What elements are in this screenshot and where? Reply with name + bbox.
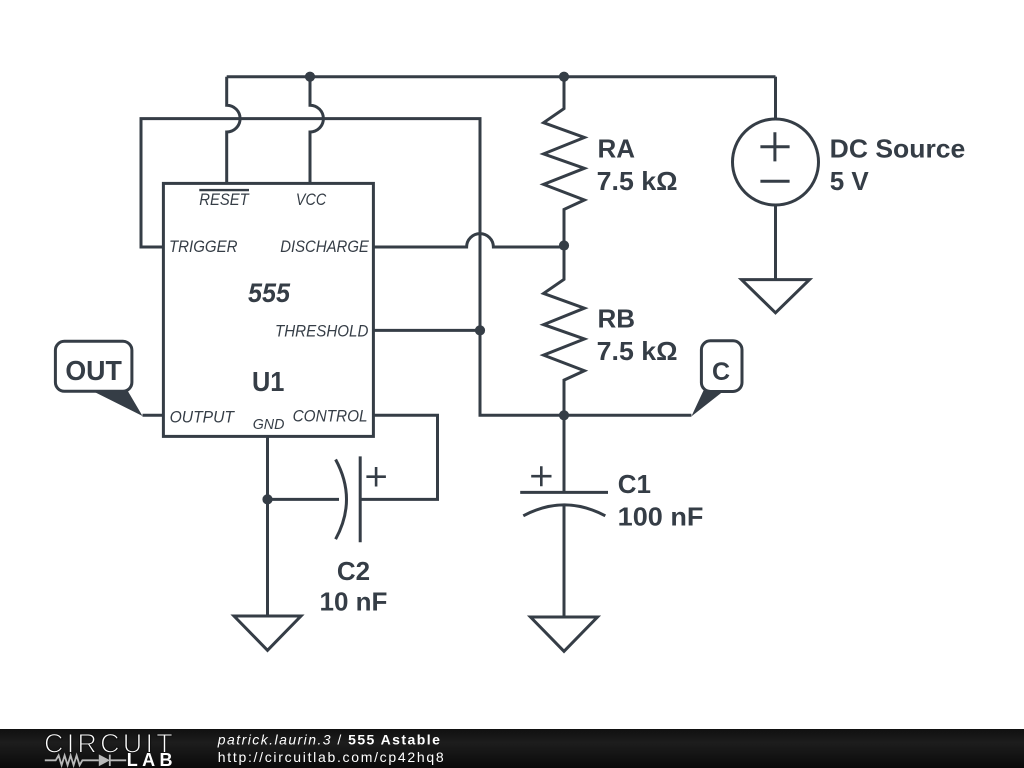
junction node top rail / VCC	[305, 72, 315, 82]
svg-text:DISCHARGE: DISCHARGE	[280, 237, 369, 256]
resistor RB with leads	[544, 246, 585, 416]
logo diode triangle	[99, 754, 110, 766]
capacitor C2 straight plate	[359, 456, 362, 542]
footer bar	[0, 729, 1024, 768]
capacitor C1 straight plate	[520, 491, 608, 494]
flag C pointer	[691, 391, 724, 417]
DC source V1 circle	[733, 119, 819, 205]
junction node THRESHOLD	[475, 325, 485, 335]
wire DISCHARGE to RA/RB junction with hop over x480	[373, 234, 564, 247]
wire C1 bottom lead	[563, 506, 566, 617]
svg-text:C2: C2	[337, 556, 370, 586]
svg-text:10 nF: 10 nF	[320, 586, 388, 616]
svg-text:U1: U1	[252, 366, 284, 397]
wire DC source bottom lead	[774, 205, 777, 280]
wire VCC pin vertical with hop	[310, 77, 323, 184]
svg-text:RESET: RESET	[199, 190, 250, 209]
svg-text:patrick.laurin.3 / 555 Astable: patrick.laurin.3 / 555 Astable	[217, 732, 442, 748]
ground under DC source	[742, 280, 810, 313]
svg-text:LAB: LAB	[127, 750, 177, 768]
wire C1 top lead	[563, 415, 566, 492]
svg-text:http://circuitlab.com/cp42hq8: http://circuitlab.com/cp42hq8	[218, 749, 446, 765]
svg-text:7.5 kΩ: 7.5 kΩ	[597, 166, 678, 196]
junction node top rail / RA	[559, 72, 569, 82]
svg-text:7.5 kΩ: 7.5 kΩ	[597, 336, 678, 366]
svg-text:100 nF: 100 nF	[618, 502, 704, 532]
svg-text:CONTROL: CONTROL	[293, 407, 368, 426]
capacitor C2 plus sign	[366, 467, 386, 487]
svg-text:VCC: VCC	[296, 190, 327, 209]
svg-text:5 V: 5 V	[830, 166, 870, 196]
svg-text:GND: GND	[253, 416, 285, 433]
svg-text:OUT: OUT	[65, 355, 122, 386]
svg-text:C: C	[712, 358, 730, 386]
RESET overline	[199, 189, 249, 191]
svg-text:C1: C1	[618, 469, 651, 499]
wire THRESHOLD pin	[373, 329, 480, 332]
flag C rounded box	[701, 341, 742, 392]
ground under C2/GND	[234, 616, 301, 650]
resistor RA with leads	[544, 77, 585, 246]
svg-text:OUTPUT: OUTPUT	[170, 407, 236, 426]
wire DC source top lead	[774, 77, 777, 119]
logo diode cathode bar	[109, 755, 111, 766]
flag OUT rounded box	[55, 341, 131, 391]
wire C2 right lead to CONTROL	[360, 415, 437, 499]
svg-text:RA: RA	[598, 134, 636, 164]
svg-text:555: 555	[248, 278, 291, 308]
capacitor C1 curved plate	[523, 505, 605, 516]
svg-text:RB: RB	[598, 303, 636, 333]
op-amp U1 555 IC box	[163, 183, 373, 436]
svg-text:TRIGGER: TRIGGER	[169, 237, 238, 256]
svg-text:THRESHOLD: THRESHOLD	[275, 321, 368, 340]
wire OUTPUT pin	[143, 414, 164, 417]
junction node GND/C2	[262, 494, 272, 504]
wire trigger-threshold net: TRIGGER left, rail2, vertical x480, bottom run to C flag	[141, 119, 691, 416]
DC source plus sign	[760, 132, 789, 161]
logo resistor squiggle	[45, 755, 126, 765]
ground under C1	[531, 617, 598, 651]
flag OUT pointer	[92, 391, 143, 417]
junction node RB/C1/net	[559, 410, 569, 420]
wire RESET pin vertical with hop	[227, 77, 240, 184]
capacitor C2 curved plate	[336, 460, 347, 540]
svg-text:DC Source: DC Source	[830, 134, 966, 164]
capacitor C1 plus sign	[531, 466, 551, 486]
junction node RA/RB/DISCHARGE	[559, 240, 569, 250]
DC source minus sign	[760, 180, 789, 183]
wire GND pin down	[266, 436, 269, 616]
wire top rail VCC net	[227, 75, 776, 78]
wire C2 left lead	[268, 498, 340, 501]
